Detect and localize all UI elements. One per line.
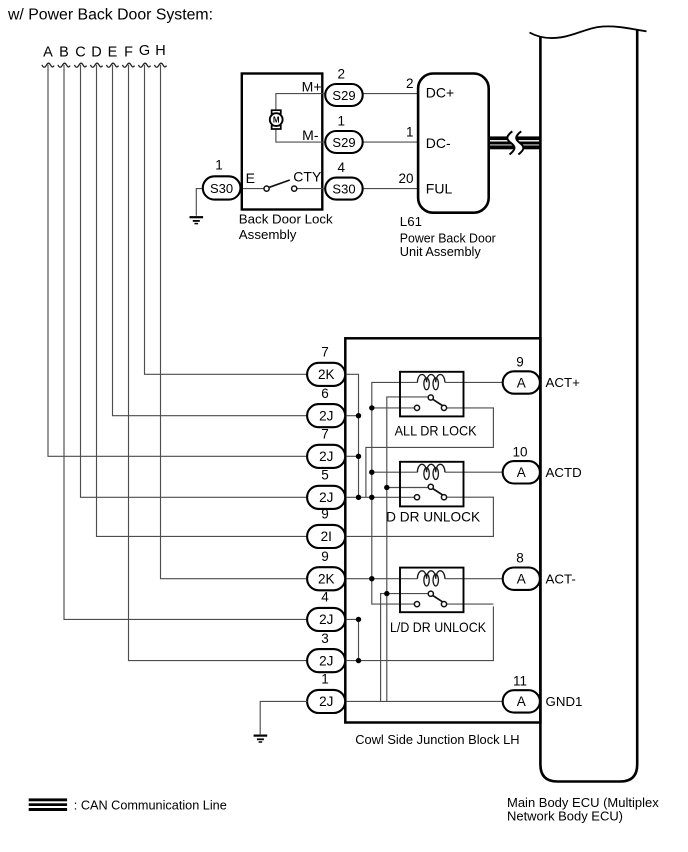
svg-text:4: 4 xyxy=(338,160,346,175)
wire E to courtesy switch xyxy=(243,188,264,190)
svg-text:E: E xyxy=(246,170,255,186)
wire M- to S29 to L61 DC- xyxy=(276,128,418,142)
svg-text:A: A xyxy=(517,694,526,709)
wire GND1 row 2J1 to A11 xyxy=(344,700,503,702)
node V1-2J6 xyxy=(356,413,361,418)
svg-text:9: 9 xyxy=(321,549,329,564)
svg-text:2J: 2J xyxy=(319,694,333,709)
relay coil D DR UNLOCK xyxy=(417,464,445,472)
component L61 Power Back Door Unit Assembly xyxy=(418,74,489,213)
svg-text:1: 1 xyxy=(321,672,329,687)
connector 2J pin6 xyxy=(307,404,345,427)
svg-text:ACT+: ACT+ xyxy=(546,375,581,390)
svg-text:Back Door Lock: Back Door Lock xyxy=(239,211,333,226)
svg-text:2J: 2J xyxy=(319,490,333,505)
node CAN line break symbol xyxy=(507,131,523,154)
svg-text:A: A xyxy=(517,375,526,390)
svg-text:A: A xyxy=(43,45,53,61)
svg-text:FUL: FUL xyxy=(426,180,453,196)
connector A pin9 xyxy=(503,371,540,393)
svg-text:2: 2 xyxy=(338,67,346,82)
svg-text:L/D DR UNLOCK: L/D DR UNLOCK xyxy=(390,619,487,635)
wire D to junction block xyxy=(97,65,310,537)
svg-text:Cowl Side Junction Block LH: Cowl Side Junction Block LH xyxy=(355,732,519,747)
wire relay3 pivot wire xyxy=(381,594,429,702)
connector S30 pin1 xyxy=(203,176,241,199)
connector A pin10 xyxy=(503,461,540,483)
svg-text:DC+: DC+ xyxy=(426,85,454,101)
svg-text:7: 7 xyxy=(321,345,329,360)
connector A pin11 xyxy=(503,690,540,712)
svg-text:2I: 2I xyxy=(321,529,332,544)
svg-text:Unit Assembly: Unit Assembly xyxy=(400,244,481,259)
svg-text:5: 5 xyxy=(321,468,329,483)
node V3-relay2 coil xyxy=(369,470,374,475)
wire relay1 coil to A9 xyxy=(445,381,503,383)
component Back Door Lock Assembly box xyxy=(242,74,322,210)
svg-text:Assembly: Assembly xyxy=(239,227,297,242)
connector 2J pin1 xyxy=(307,690,345,713)
svg-text:CTY: CTY xyxy=(293,169,322,185)
svg-text:L61: L61 xyxy=(400,214,422,229)
relay switch ALL DR LOCK xyxy=(414,395,446,411)
svg-text:S30: S30 xyxy=(210,181,233,196)
wire B break symbol xyxy=(58,63,70,67)
wire G break symbol xyxy=(138,63,150,67)
wire 2K9 row to relay3 coil xyxy=(344,578,418,580)
wire relay3 output stub xyxy=(447,603,494,605)
svg-text:9: 9 xyxy=(516,355,524,370)
svg-text:4: 4 xyxy=(321,590,329,605)
svg-text:10: 10 xyxy=(512,444,527,459)
wire relay pivot common V4 xyxy=(387,397,428,701)
svg-text:2J: 2J xyxy=(319,653,333,668)
relay coil ALL DR LOCK xyxy=(417,374,445,382)
svg-text:20: 20 xyxy=(398,171,413,186)
wire 2J3 row xyxy=(344,606,493,660)
svg-text:2K: 2K xyxy=(318,572,335,587)
connector 2J pin4 xyxy=(307,608,345,631)
wire A break symbol xyxy=(42,63,54,67)
wire 2J4 stub and splice V5 xyxy=(344,619,359,660)
relay coil L/D DR UNLOCK xyxy=(417,571,445,579)
wire 2J1 to ground xyxy=(260,701,307,734)
svg-text:E: E xyxy=(108,45,118,61)
wire E break symbol xyxy=(106,63,118,67)
svg-text:GND1: GND1 xyxy=(546,694,583,709)
svg-text:ACT-: ACT- xyxy=(546,571,576,586)
svg-text:2J: 2J xyxy=(319,612,333,627)
svg-text:8: 8 xyxy=(516,551,524,566)
svg-text:DC-: DC- xyxy=(426,135,451,151)
wire S30 pin1 to ground xyxy=(196,189,204,216)
wire B to junction block xyxy=(64,65,309,620)
node V1-2J5 xyxy=(356,495,361,500)
wire 2J5 row to relay2 left contact xyxy=(344,496,414,498)
connector 2J pin7 xyxy=(307,445,345,468)
relay switch D DR UNLOCK xyxy=(414,484,446,500)
svg-text:1: 1 xyxy=(406,124,414,139)
wire A to junction block xyxy=(48,65,309,457)
connector 2J pin3 xyxy=(307,649,345,672)
node V4-relay3 pivot xyxy=(384,591,389,596)
ground G (junction block) xyxy=(254,736,268,742)
wire G to junction block xyxy=(145,65,310,375)
component Main Body ECU (Multiplex Network Body ECU) box xyxy=(540,29,637,782)
connector S30 pin4 xyxy=(325,178,363,200)
svg-text:H: H xyxy=(155,43,165,59)
svg-text:B: B xyxy=(59,45,69,61)
connector 2J pin5 xyxy=(307,486,345,509)
node V3-2K9 xyxy=(369,576,374,581)
wire D break symbol xyxy=(90,63,102,67)
wire H to junction block xyxy=(161,65,310,579)
svg-text:S29: S29 xyxy=(332,135,355,150)
node V5-2J3 xyxy=(356,658,361,663)
svg-text:2K: 2K xyxy=(318,367,335,382)
legend CAN communication line symbol xyxy=(29,798,67,811)
wire F break symbol xyxy=(122,63,134,67)
connector 2K pin7 xyxy=(307,363,345,386)
wire CTY to S30 to L61 FUL xyxy=(297,188,418,190)
svg-text:2J: 2J xyxy=(319,449,333,464)
svg-text:C: C xyxy=(75,45,85,61)
wire C break symbol xyxy=(74,63,86,67)
connector A pin8 xyxy=(503,568,540,590)
wire relay2 pivot stub xyxy=(387,487,428,489)
relay switch L/D DR UNLOCK xyxy=(414,591,446,607)
wire relay1 output loop xyxy=(366,408,494,497)
svg-text:2J: 2J xyxy=(319,409,333,424)
svg-text:S29: S29 xyxy=(332,88,355,103)
node V3-2J5 xyxy=(369,495,374,500)
connector S29 pin1 xyxy=(325,131,363,153)
svg-text:G: G xyxy=(139,43,150,59)
relay box D DR UNLOCK xyxy=(400,462,464,507)
svg-text:ALL DR LOCK: ALL DR LOCK xyxy=(395,422,478,438)
wire 2K7 feed and splice V1 xyxy=(344,374,359,497)
wire H break symbol xyxy=(154,63,166,67)
relay box ALL DR LOCK xyxy=(400,372,464,417)
wire relay2 coil to A10 xyxy=(445,471,503,473)
wire E to junction block xyxy=(113,65,310,416)
svg-text:A: A xyxy=(517,465,526,480)
node V4-relay2 pivot xyxy=(384,485,389,490)
wire CAN communication line L61 to ECU xyxy=(489,136,540,149)
svg-text:9: 9 xyxy=(321,507,329,522)
ground G (back door) xyxy=(190,217,204,223)
wire relay2 coil left stub xyxy=(372,471,418,473)
wire relay2 output to 2I9 xyxy=(344,497,493,536)
motor M back door lock xyxy=(270,110,283,129)
svg-text:D: D xyxy=(91,45,101,61)
svg-text:2: 2 xyxy=(406,76,414,91)
wire relay1 coil left / splice V3 / relay3 left contact xyxy=(372,382,418,604)
svg-text:ACTD: ACTD xyxy=(546,465,582,480)
connector 2I pin9 xyxy=(307,525,345,548)
connector 2K pin9 xyxy=(307,567,345,590)
node V1-2J7 xyxy=(356,454,361,459)
svg-text:: CAN Communication Line: : CAN Communication Line xyxy=(74,798,227,813)
svg-text:M-: M- xyxy=(302,127,319,143)
wire 2J6 stub xyxy=(344,415,359,417)
node V5-2J4 xyxy=(356,617,361,622)
svg-text:3: 3 xyxy=(321,631,329,646)
wire ECU top break (wavy) xyxy=(530,26,647,38)
svg-text:6: 6 xyxy=(321,386,329,401)
svg-text:F: F xyxy=(124,45,133,61)
svg-text:1: 1 xyxy=(215,157,223,172)
component Cowl Side Junction Block LH box xyxy=(345,338,540,722)
svg-text:A: A xyxy=(517,572,526,587)
connector S29 pin2 xyxy=(325,84,363,106)
svg-text:S30: S30 xyxy=(332,181,355,196)
svg-text:M+: M+ xyxy=(302,78,322,94)
svg-text:D DR UNLOCK: D DR UNLOCK xyxy=(386,508,481,524)
wire C to junction block xyxy=(81,65,310,498)
wire F to junction block xyxy=(129,65,310,661)
svg-text:Network Body ECU): Network Body ECU) xyxy=(507,809,623,824)
wire relay1 left contact stub xyxy=(372,407,415,409)
svg-text:11: 11 xyxy=(513,673,527,688)
relay box L/D DR UNLOCK xyxy=(400,568,464,613)
svg-text:M: M xyxy=(273,115,280,124)
wire M+ to S29 to L61 DC+ xyxy=(276,94,418,111)
svg-text:w/ Power Back Door System:: w/ Power Back Door System: xyxy=(7,7,213,24)
wire 2J7 stub xyxy=(344,455,359,457)
node V3-relay1 contact xyxy=(369,405,374,410)
svg-text:7: 7 xyxy=(321,427,329,442)
switch courtesy (E-CTY) xyxy=(264,186,297,191)
wire relay3 coil to A8 xyxy=(445,578,503,580)
svg-text:1: 1 xyxy=(338,114,346,129)
